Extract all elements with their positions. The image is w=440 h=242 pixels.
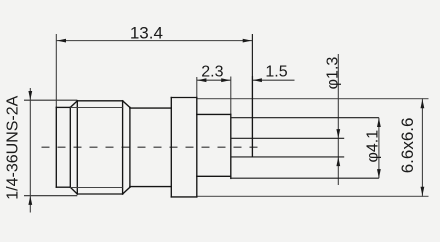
svg-text:1/4-36UNS-2A: 1/4-36UNS-2A [5,95,22,199]
svg-text:6.6x6.6: 6.6x6.6 [398,118,417,174]
svg-text:13.4: 13.4 [130,23,163,42]
svg-text:2.3: 2.3 [201,63,223,80]
svg-text:φ4.1: φ4.1 [364,130,381,163]
svg-text:φ1.3: φ1.3 [324,57,341,90]
svg-text:1.5: 1.5 [265,63,287,80]
